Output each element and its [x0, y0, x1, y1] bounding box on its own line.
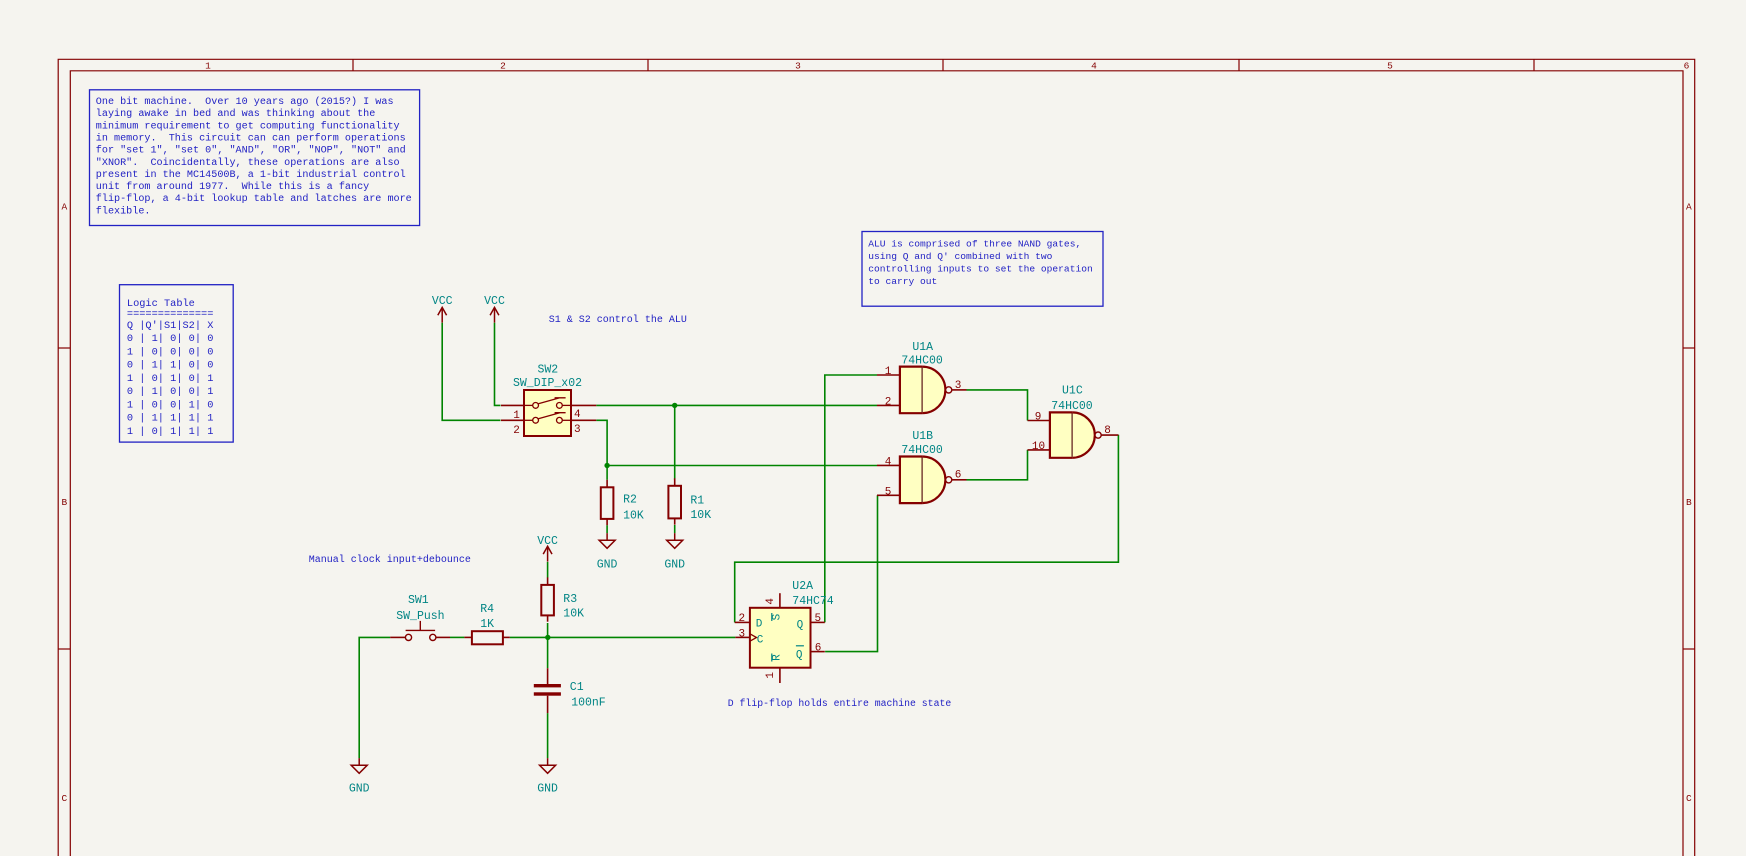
wire U2A Q output up to U1A pin 1 — [825, 375, 877, 622]
svg-text:3: 3 — [795, 60, 801, 71]
svg-text:6: 6 — [955, 470, 962, 482]
svg-text:1: 1 — [205, 60, 211, 71]
U2A body — [750, 608, 811, 668]
U1B output pin 6 — [952, 470, 967, 482]
svg-text:74HC00: 74HC00 — [1051, 400, 1093, 413]
svg-text:5: 5 — [814, 613, 821, 625]
svg-text:to carry out: to carry out — [868, 276, 937, 287]
junction SW2 pin3 / R2 / U1B — [604, 463, 609, 468]
wire node to U1B pin 4 — [607, 465, 877, 467]
svg-text:SW2: SW2 — [537, 364, 558, 377]
svg-text:B: B — [1686, 497, 1692, 508]
sheet frame column numbers 1-6 — [205, 60, 1690, 71]
wire U1C output feedback to U2A D input — [735, 435, 1119, 623]
svg-text:A: A — [1686, 202, 1692, 213]
text note: logic table box — [120, 285, 234, 442]
svg-text:One bit machine. Over 10 year: One bit machine. Over 10 years ago (2015… — [96, 96, 394, 108]
U2A pin 5 Q output — [811, 613, 825, 625]
wire VCC down to SW2 pin 1 — [495, 323, 501, 406]
U1B input pin 4 — [877, 457, 900, 469]
svg-text:using Q and Q' combined with t: using Q and Q' combined with two — [868, 251, 1052, 262]
U2A pin 6 Qbar output — [811, 643, 825, 655]
NAND gate U1C 74HC00 — [1028, 385, 1119, 458]
ground symbol below R2 — [597, 533, 618, 571]
wire R2 bottom to GND — [606, 525, 608, 533]
U1B output bubble — [946, 477, 952, 483]
svg-text:2: 2 — [885, 397, 892, 409]
junction SW2 pin4 / R1 / U1A — [672, 403, 677, 408]
svg-text:==============: ============== — [127, 308, 214, 320]
svg-text:4: 4 — [574, 409, 581, 421]
U1C body — [1050, 412, 1072, 457]
svg-text:R2: R2 — [623, 494, 637, 507]
svg-text:1 | 0| 0| 1| 0: 1 | 0| 0| 1| 0 — [127, 399, 214, 411]
resistor R4 1K (horizontal) — [464, 603, 509, 644]
svg-text:5: 5 — [1387, 60, 1393, 71]
svg-text:VCC: VCC — [432, 295, 453, 308]
text note: one bit machine description box — [90, 90, 420, 226]
wire R4 through clock node to U2A pin 3 — [510, 636, 736, 638]
svg-text:1: 1 — [513, 410, 520, 422]
svg-text:in memory. This circuit can c: in memory. This circuit can can perform … — [96, 132, 406, 144]
svg-text:D: D — [756, 619, 763, 631]
svg-text:A: A — [61, 202, 67, 213]
ground symbol below C1 — [537, 758, 558, 796]
U1C input pin 10 — [1028, 441, 1050, 453]
U1A body — [900, 367, 922, 414]
svg-text:3: 3 — [738, 628, 745, 640]
U1A input pin 2 — [877, 397, 900, 409]
svg-text:controlling inputs to set the: controlling inputs to set the operation — [868, 263, 1093, 274]
svg-text:0 | 1| 1| 0| 0: 0 | 1| 1| 0| 0 — [127, 360, 214, 372]
resistor R3 10K — [541, 577, 584, 621]
svg-text:6: 6 — [1684, 60, 1690, 71]
wire VCC down to R3 top — [547, 562, 549, 578]
svg-text:SW1: SW1 — [408, 594, 429, 607]
sheet frame division ticks — [58, 59, 1695, 649]
svg-text:U1A: U1A — [912, 341, 933, 354]
U1C input pin 9 — [1028, 412, 1050, 424]
svg-text:S1 & S2 control the ALU: S1 & S2 control the ALU — [549, 314, 687, 326]
svg-text:U2A: U2A — [792, 580, 813, 593]
svg-text:Manual clock input+debounce: Manual clock input+debounce — [309, 554, 471, 566]
SW2 body — [524, 390, 571, 436]
capacitor C1 100nF — [534, 668, 606, 713]
U1B input pin 5 — [877, 486, 900, 498]
svg-text:0 | 1| 1| 1| 1: 0 | 1| 1| 1| 1 — [127, 413, 214, 425]
U1B body — [900, 457, 922, 504]
svg-text:100nF: 100nF — [571, 696, 606, 709]
U2A pin name Rbar — [772, 654, 784, 662]
svg-text:SW_DIP_x02: SW_DIP_x02 — [513, 377, 582, 390]
svg-text:74HC00: 74HC00 — [901, 444, 943, 457]
svg-text:3: 3 — [574, 424, 581, 436]
svg-text:2: 2 — [738, 613, 745, 625]
wire SW1 to R4 — [450, 636, 464, 638]
svg-text:0 | 1| 0| 0| 1: 0 | 1| 0| 0| 1 — [127, 386, 214, 398]
svg-text:unit from around 1977. While: unit from around 1977. While this is a f… — [96, 181, 369, 193]
svg-text:present in the MC14500B, a 1-b: present in the MC14500B, a 1-bit industr… — [96, 169, 406, 181]
svg-text:GND: GND — [597, 558, 618, 571]
svg-text:C: C — [1686, 793, 1692, 804]
svg-text:flexible.: flexible. — [96, 205, 151, 217]
svg-text:Q: Q — [797, 619, 804, 631]
svg-text:S: S — [772, 613, 784, 620]
svg-text:Q |Q'|S1|S2| X: Q |Q'|S1|S2| X — [127, 320, 214, 332]
svg-text:C: C — [61, 793, 67, 804]
power symbol VCC feeding SW2 pin 1 — [484, 295, 505, 323]
U1C output bubble — [1095, 432, 1101, 438]
svg-text:10K: 10K — [623, 509, 644, 522]
svg-text:GND: GND — [664, 558, 685, 571]
svg-text:SW_Push: SW_Push — [396, 610, 444, 623]
U2A pin 4 set (top) — [765, 593, 780, 608]
power symbol VCC above R3 — [537, 535, 558, 562]
text note: ALU description box — [862, 232, 1103, 307]
svg-text:R4: R4 — [480, 603, 494, 616]
wire node down to R2 top — [606, 466, 608, 480]
U1A input pin 1 — [877, 366, 900, 378]
svg-text:9: 9 — [1035, 412, 1042, 424]
wire junction down to R1 top — [674, 405, 676, 479]
wire U2A Qbar output to U1B pin 5 — [825, 495, 877, 651]
svg-text:C1: C1 — [570, 681, 584, 694]
U2A pin 3 clock input — [735, 628, 756, 641]
svg-text:1 | 0| 0| 0| 0: 1 | 0| 0| 0| 0 — [127, 346, 214, 358]
svg-text:10K: 10K — [690, 509, 711, 522]
resistor R2 10K — [601, 480, 644, 525]
svg-text:1: 1 — [885, 366, 892, 378]
wire U1B output to U1C pin 10 — [967, 450, 1028, 480]
svg-text:B: B — [61, 497, 67, 508]
switch SW2 SW_DIP_x02 — [501, 364, 596, 437]
svg-text:10: 10 — [1032, 441, 1045, 453]
power symbol VCC feeding SW2 pin 2 — [432, 295, 453, 323]
svg-text:2: 2 — [500, 60, 506, 71]
svg-text:8: 8 — [1104, 425, 1111, 437]
svg-text:Q: Q — [796, 649, 803, 661]
svg-text:U1C: U1C — [1062, 385, 1083, 398]
svg-text:6: 6 — [815, 643, 822, 655]
svg-text:4: 4 — [1091, 60, 1097, 71]
svg-text:74HC00: 74HC00 — [901, 354, 943, 367]
NAND gate U1B 74HC00 — [877, 430, 967, 503]
svg-text:2: 2 — [513, 425, 520, 437]
wire SW2 pin 3 down to node — [596, 420, 607, 465]
wire VCC down to SW2 pin 2 — [442, 323, 500, 421]
svg-text:10K: 10K — [563, 607, 584, 620]
junction clock node R4 / R3 / C1 / U2A — [545, 635, 550, 640]
svg-text:3: 3 — [955, 380, 962, 392]
U1A output bubble — [946, 387, 952, 393]
svg-text:for "set 1", "set 0", "AND", ": for "set 1", "set 0", "AND", "OR", "NOP"… — [96, 145, 406, 157]
svg-text:R3: R3 — [563, 593, 577, 606]
ground symbol below R1 — [664, 533, 685, 571]
NAND gate U1A 74HC00 — [877, 341, 967, 413]
svg-text:VCC: VCC — [484, 295, 505, 308]
svg-text:VCC: VCC — [537, 535, 558, 548]
svg-text:1 | 0| 1| 1| 1: 1 | 0| 1| 1| 1 — [127, 426, 214, 438]
svg-text:1 | 0| 1| 0| 1: 1 | 0| 1| 0| 1 — [127, 373, 214, 385]
svg-text:GND: GND — [349, 783, 370, 796]
wire U1A output to U1C pin 9 — [967, 390, 1028, 421]
U2A pin 2 D input — [735, 613, 750, 625]
sheet frame row letters A B C — [61, 202, 1692, 805]
svg-text:laying awake in bed and was th: laying awake in bed and was thinking abo… — [96, 108, 376, 120]
U1C output pin 8 — [1101, 425, 1118, 437]
U2A pin name Sbar — [772, 613, 784, 621]
svg-text:R: R — [772, 654, 784, 661]
U2A pin name Qbar — [796, 646, 804, 662]
svg-text:"XNOR". Coincidentally, these: "XNOR". Coincidentally, these operations… — [96, 157, 400, 169]
wire R1 bottom to GND — [674, 525, 676, 533]
svg-text:U1B: U1B — [912, 430, 933, 443]
svg-text:74HC74: 74HC74 — [792, 595, 834, 608]
resistor R1 10K — [668, 478, 711, 524]
svg-text:0 | 1| 0| 0| 0: 0 | 1| 0| 0| 0 — [127, 333, 214, 345]
svg-text:4: 4 — [765, 598, 777, 605]
SW2 switch element 2 — [501, 413, 596, 423]
svg-text:ALU is comprised of three NAND: ALU is comprised of three NAND gates, — [868, 238, 1081, 249]
ground symbol below SW1 — [349, 758, 370, 796]
svg-text:4: 4 — [885, 457, 892, 469]
wire SW2 pin 4 to U1A pin 2 — [596, 404, 877, 406]
svg-text:R1: R1 — [690, 494, 704, 507]
svg-text:minimum requirement to get com: minimum requirement to get computing fun… — [96, 120, 400, 132]
svg-text:flip-flop, a 4-bit lookup tabl: flip-flop, a 4-bit lookup table and latc… — [96, 193, 412, 205]
wire SW1 left to GND drop — [359, 637, 390, 758]
wire R3 bottom through node to C1 top — [547, 623, 549, 668]
svg-text:1: 1 — [765, 672, 777, 679]
svg-text:C: C — [757, 635, 764, 647]
svg-text:5: 5 — [885, 486, 892, 498]
svg-text:GND: GND — [537, 783, 558, 796]
wire C1 bottom to GND — [547, 713, 549, 758]
switch SW1 SW_Push — [390, 594, 450, 640]
U2A pin 1 reset (bottom) — [765, 668, 780, 683]
svg-text:1K: 1K — [480, 618, 494, 631]
svg-text:D flip-flop holds entire machi: D flip-flop holds entire machine state — [728, 698, 952, 709]
U1A output pin 3 — [952, 380, 967, 392]
SW2 switch element 1 — [501, 398, 596, 409]
flip-flop U2A 74HC74 — [735, 580, 834, 683]
